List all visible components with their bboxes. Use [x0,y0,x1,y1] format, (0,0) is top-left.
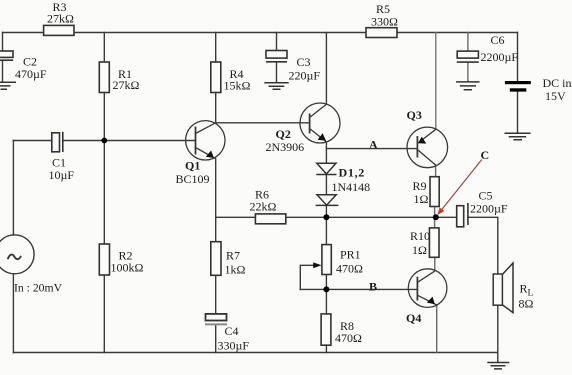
svg-text:2200µF: 2200µF [481,50,519,64]
svg-text:330Ω: 330Ω [371,15,398,29]
svg-text:BC109: BC109 [176,172,210,186]
svg-text:R7: R7 [226,249,240,263]
resistor R4 [211,62,221,93]
svg-text:100kΩ: 100kΩ [111,261,144,275]
svg-text:R10: R10 [410,229,430,243]
wire battery column [517,33,519,134]
capacitor C2 [0,51,13,60]
resistor R2 [99,244,109,275]
svg-text:R: R [520,282,528,296]
red annotation C with arrow [442,160,482,210]
svg-text:22kΩ: 22kΩ [250,200,277,214]
svg-text:C: C [481,148,490,162]
svg-text:C4: C4 [225,324,239,338]
wire C3 branch [276,33,278,83]
svg-text:Q2: Q2 [276,127,291,141]
capacitor C1 [52,132,63,152]
wire node B line [300,288,417,290]
wire speaker to ground [497,305,499,362]
svg-text:Q4: Q4 [406,311,421,325]
node B junction [323,286,329,292]
svg-text:2N3906: 2N3906 [266,140,305,154]
capacitor C6 [457,51,479,62]
wire Q2 emitter to rail [325,33,327,105]
transistor Q4 [408,269,447,308]
wire bottom rail [13,352,498,354]
wire C5 to speaker [468,217,498,275]
svg-text:1Ω: 1Ω [414,192,429,206]
svg-text:C3: C3 [297,55,311,69]
resistor R8 [321,314,331,345]
ground (C2) [0,82,16,89]
wire R1/R2 column [103,33,105,353]
node D1/R6 junction [323,214,329,220]
diode D1 [316,163,336,174]
svg-text:D1,2: D1,2 [339,166,365,180]
wire Q4 emitter to rail [436,305,438,353]
wire input source column [12,141,14,353]
svg-text:1kΩ: 1kΩ [225,263,246,277]
wire C6 branch [467,33,469,82]
capacitor C3 [266,51,287,62]
svg-text:2200µF: 2200µF [470,202,508,216]
resistor R1 [99,62,109,93]
svg-text:27kΩ: 27kΩ [47,12,74,26]
svg-text:Q1: Q1 [185,159,200,173]
resistor R3 [44,25,74,35]
ground (C3) [264,83,288,90]
svg-text:A: A [369,137,378,151]
wire C1 input line [13,140,195,142]
resistor R7 [211,242,221,276]
ground (battery) [505,133,531,140]
wire PR1 wiper return [300,265,314,289]
resistor R9 [430,177,439,207]
svg-text:8Ω: 8Ω [519,297,534,311]
wire R4 column [215,33,217,123]
svg-text:330µF: 330µF [218,339,250,353]
wire Q3 emitter to R9 / node C / R10 [435,165,436,271]
wire C2 branch [2,33,4,83]
diode D2 [316,195,339,206]
svg-text:DC in: DC in [543,76,572,90]
svg-text:R9: R9 [413,179,427,193]
wire Q1 emitter / R7 / C4 column [215,159,217,353]
svg-text:15V: 15V [545,89,566,103]
battery DC in [505,81,531,92]
resistor R6 [255,214,285,224]
wire top rail [3,32,518,34]
svg-text:15kΩ: 15kΩ [224,79,251,93]
potentiometer PR1 [322,245,331,275]
svg-text:Q3: Q3 [407,108,422,122]
wire Q2 collector / diode column [325,142,327,353]
resistor R10 [429,228,439,257]
ground (output, bottom right) [487,363,509,369]
svg-text:In : 20mV: In : 20mV [14,282,63,295]
AC source [0,235,34,274]
speaker RL [493,263,513,313]
svg-text:1Ω: 1Ω [412,243,427,257]
svg-text:220µF: 220µF [289,69,321,83]
wire node A line [326,148,417,150]
capacitor C4 [205,314,227,325]
svg-text:10µF: 10µF [49,168,75,182]
wire Q1 collector to Q2 base [216,122,310,124]
svg-text:470Ω: 470Ω [335,331,362,345]
svg-text:PR1: PR1 [340,248,361,262]
svg-text:1N4148: 1N4148 [332,180,371,194]
svg-text:470Ω: 470Ω [336,262,363,276]
resistor R5 [366,28,397,38]
svg-text:B: B [369,280,377,294]
transistor Q2 [300,103,340,143]
ground (C6) [456,82,480,90]
wire rail to Q3 [435,33,437,130]
node (C1/R1/R2 junction) [101,138,107,144]
transistor Q1 [186,121,225,160]
svg-text:27kΩ: 27kΩ [113,78,140,92]
capacitor C5 [457,203,468,227]
svg-text:C5: C5 [479,189,493,203]
wire R6 line [216,216,456,218]
node C junction [433,214,439,220]
svg-text:470µF: 470µF [15,67,47,81]
transistor Q3 [407,127,448,168]
svg-text:C6: C6 [491,33,505,47]
